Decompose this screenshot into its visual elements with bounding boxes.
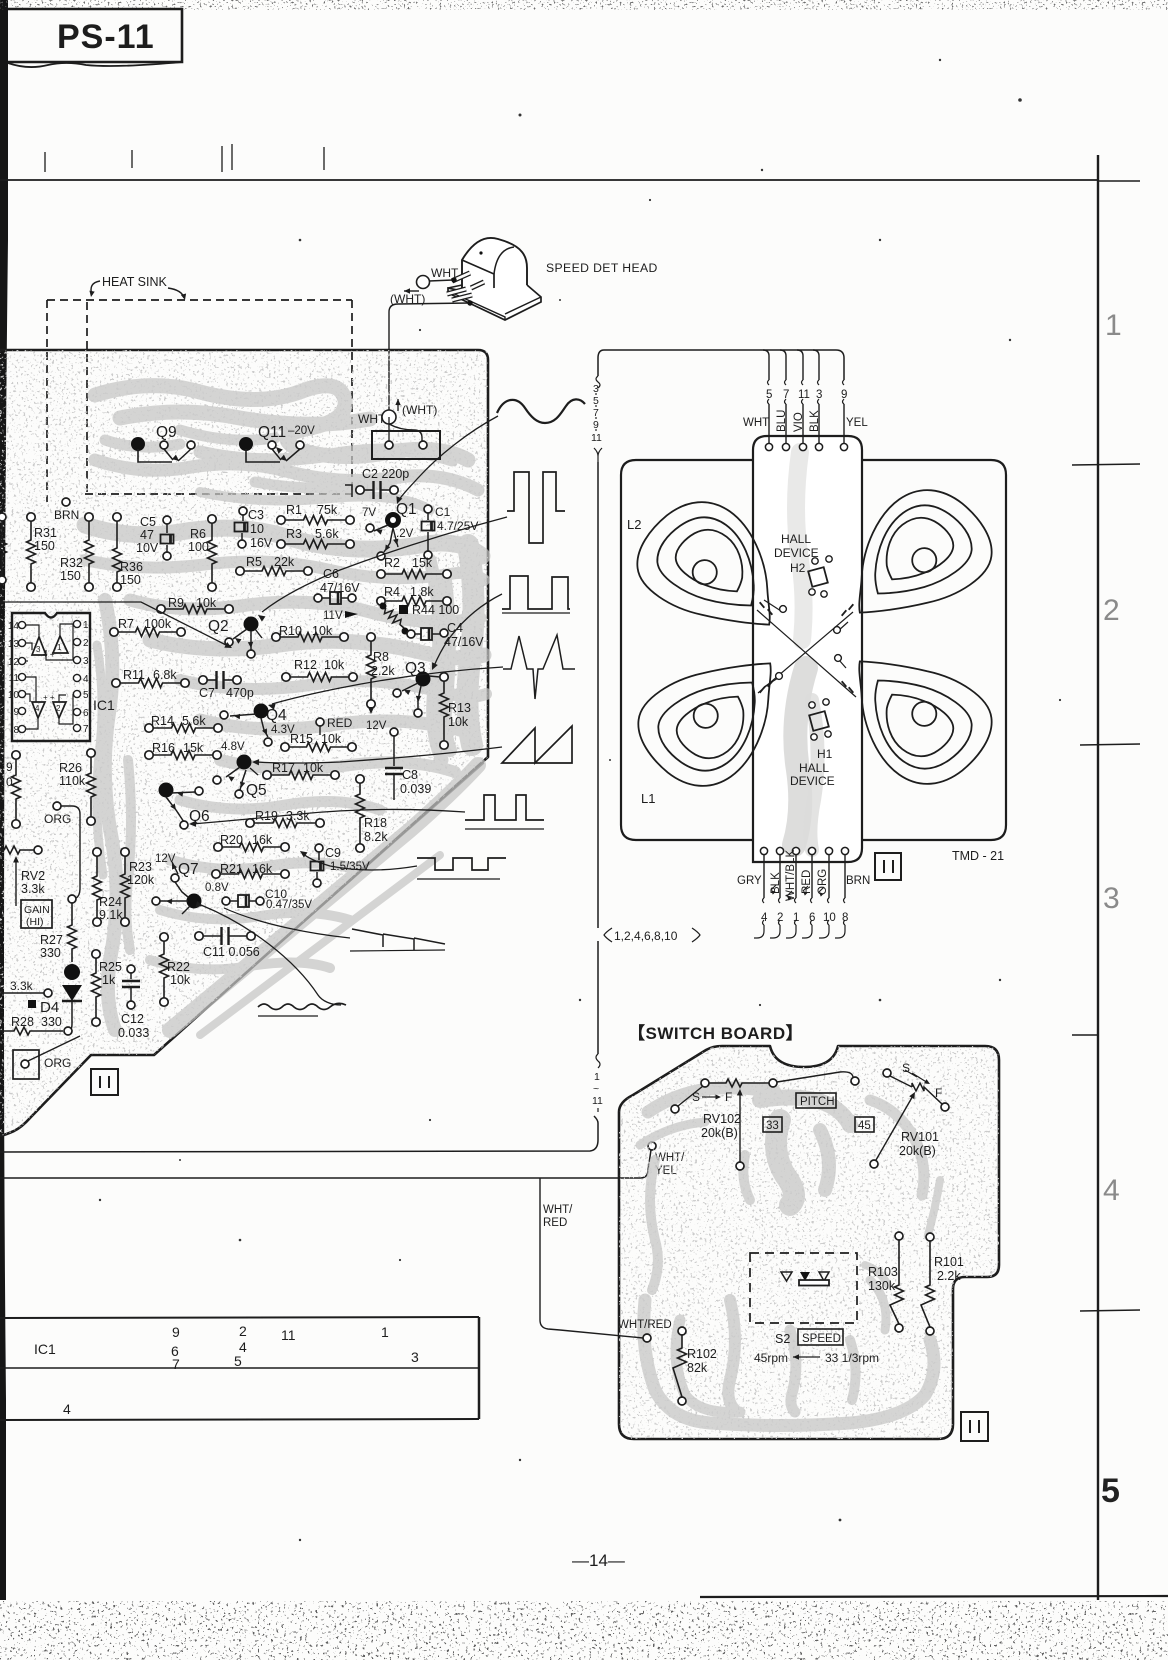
- IC1 pin 7: [73, 724, 80, 731]
- switch board gray traces: [640, 1088, 940, 1426]
- svg-text:C7: C7: [199, 686, 215, 700]
- svg-text:9: 9: [6, 760, 13, 774]
- svg-text:SPEED DET HEAD: SPEED DET HEAD: [546, 261, 658, 275]
- svg-text:D4: D4: [40, 999, 59, 1016]
- svg-text:4: 4: [83, 674, 89, 685]
- svg-text:HEAT SINK: HEAT SINK: [102, 275, 167, 289]
- svg-text:C12: C12: [121, 1012, 144, 1026]
- svg-text:470p: 470p: [226, 686, 254, 700]
- svg-text:33 1/3rpm: 33 1/3rpm: [825, 1351, 879, 1365]
- svg-text:C4: C4: [447, 621, 463, 635]
- motor top pin 5 wire WHT: [763, 350, 769, 380]
- svg-text:—14—: —14—: [572, 1551, 625, 1570]
- motor coil upper-left: [622, 481, 809, 665]
- pot RV2 3.3k: [0, 846, 34, 854]
- motor bottom pin 2: [776, 847, 783, 854]
- svg-text:Q2: Q2: [208, 618, 229, 635]
- WHT/RED wire: [540, 1178, 560, 1330]
- svg-text:22k: 22k: [274, 555, 295, 569]
- svg-text:C9: C9: [325, 846, 341, 860]
- svg-text:4: 4: [35, 704, 40, 713]
- svg-text:R4: R4: [384, 585, 400, 599]
- svg-text:4.8V: 4.8V: [221, 741, 245, 753]
- resistor R44 100 (square mark): [399, 605, 408, 614]
- bus lower label 1~11: [596, 1054, 600, 1068]
- svg-text:1,2,4,6,8,10: 1,2,4,6,8,10: [614, 929, 678, 943]
- main PCB board outline: [158, 763, 484, 1051]
- svg-text:R18: R18: [364, 816, 387, 830]
- svg-text:7V: 7V: [362, 507, 376, 519]
- IC1 pin 6: [73, 708, 80, 715]
- svg-text:10k: 10k: [170, 973, 191, 987]
- top scan speckle band: [0, 0, 1168, 10]
- right vertical rule: [1097, 155, 1099, 1600]
- svg-text:VIO: VIO: [793, 412, 805, 432]
- svg-text:1: 1: [381, 1324, 389, 1340]
- IC1 pin 3: [73, 656, 80, 663]
- pointer curve: Q6 area to small sawtooth: [224, 908, 350, 938]
- svg-text:4: 4: [1103, 1174, 1120, 1207]
- pointer curve: sawtooth to Q5: [256, 747, 502, 763]
- ORG wire upper: [53, 802, 61, 810]
- IC1 pin 9: [18, 707, 25, 714]
- svg-text:R13: R13: [448, 701, 471, 715]
- svg-text:RV101: RV101: [901, 1130, 939, 1144]
- svg-text:C2 220p: C2 220p: [362, 467, 409, 481]
- svg-text:R101: R101: [934, 1255, 964, 1269]
- pointer curve: notched to C9: [302, 853, 417, 870]
- svg-text:YEL: YEL: [846, 417, 868, 429]
- svg-text:PS-11: PS-11: [57, 18, 155, 56]
- svg-text:10: 10: [823, 912, 836, 924]
- svg-text:R2: R2: [384, 556, 400, 570]
- svg-text:+ +: + +: [43, 650, 55, 659]
- WHT/YEL wire: [0, 1150, 651, 1178]
- svg-text:R102: R102: [687, 1347, 717, 1361]
- svg-text:Q9: Q9: [156, 424, 177, 441]
- GAIN HI box: [21, 900, 52, 928]
- motor top pin 9 wire YEL: [843, 380, 845, 404]
- motor top pin 3 wire BLK: [813, 350, 819, 380]
- svg-text:WHT/BLK: WHT/BLK: [785, 850, 797, 901]
- RED wire label: [316, 718, 324, 726]
- motor bottom pin 10: [825, 847, 832, 854]
- svg-text:3.3k: 3.3k: [21, 882, 45, 896]
- svg-text:R32: R32: [60, 556, 83, 570]
- bus connection to motor lower pins: [604, 928, 612, 942]
- pointer curve: tall pulse to Q2: [262, 517, 507, 612]
- bus break bracket top: [596, 376, 600, 388]
- svg-text:R26: R26: [59, 761, 82, 775]
- svg-text:ORG: ORG: [817, 869, 829, 895]
- svg-text:9.1k: 9.1k: [99, 908, 123, 922]
- svg-text:RV102: RV102: [703, 1112, 741, 1126]
- svg-text:F: F: [725, 1090, 732, 1104]
- svg-text:110k: 110k: [59, 774, 86, 788]
- svg-text:R9: R9: [168, 596, 184, 610]
- svg-text:L2: L2: [627, 517, 641, 532]
- motor body outline: [621, 460, 753, 840]
- S2 switch dashed box: [750, 1253, 857, 1323]
- motor top pin 7 wire BLU: [780, 350, 786, 380]
- motor coil lower-left: [623, 624, 810, 808]
- PCB copper trace shading: [85, 386, 486, 1035]
- coil interconnect wires crossing: [757, 610, 856, 697]
- heat sink dashed outline: [47, 299, 352, 301]
- svg-text:RED: RED: [327, 716, 353, 730]
- svg-text:R103: R103: [868, 1265, 898, 1279]
- bottom scan speckle band: [0, 1601, 1168, 1660]
- svg-text:14: 14: [8, 621, 20, 632]
- svg-text:(WHT): (WHT): [402, 403, 437, 417]
- svg-text:HALL: HALL: [781, 532, 811, 546]
- svg-text:BLK: BLK: [809, 410, 821, 432]
- motor bottom pin 4: [760, 847, 767, 854]
- svg-text:R44 100: R44 100: [412, 603, 459, 617]
- waveform: square wave: [502, 576, 570, 609]
- motor bottom pin 6: [808, 847, 815, 854]
- IC1 op-amp 4: [32, 702, 45, 718]
- svg-text:SPEED: SPEED: [802, 1333, 841, 1345]
- svg-text:ORG: ORG: [44, 1056, 71, 1070]
- svg-text:16k: 16k: [252, 833, 273, 847]
- top rule line: [0, 179, 1098, 181]
- svg-text:8: 8: [13, 725, 19, 736]
- svg-text:20k(B): 20k(B): [899, 1144, 936, 1158]
- svg-text:1: 1: [793, 912, 799, 924]
- waveform: sawtooth ramps: [502, 726, 572, 763]
- svg-text:R12: R12: [294, 658, 317, 672]
- svg-text:8.2k: 8.2k: [364, 830, 388, 844]
- page frame: left black bar: [0, 0, 8, 1600]
- svg-text:S2: S2: [775, 1332, 790, 1346]
- head pins: [452, 273, 470, 281]
- resistor R102 82k: [678, 1327, 686, 1335]
- motor top feed line: [604, 350, 844, 380]
- svg-text:1: 1: [1105, 309, 1122, 342]
- motor bottom pin 1: [792, 847, 799, 854]
- partial resistor at left page edge: [0, 520, 7, 575]
- svg-text:R14: R14: [151, 714, 174, 728]
- svg-text:R22: R22: [167, 960, 190, 974]
- svg-text:11: 11: [281, 1327, 296, 1343]
- svg-text:GAIN: GAIN: [24, 904, 50, 916]
- 11 box main board: [91, 1069, 118, 1095]
- svg-text:0.47/35V: 0.47/35V: [266, 899, 312, 911]
- svg-text:R25: R25: [99, 960, 122, 974]
- ORG box lower: [13, 1050, 39, 1079]
- svg-text:H2: H2: [790, 561, 806, 575]
- switch board outline: [619, 1046, 999, 1439]
- svg-text:13: 13: [8, 639, 20, 650]
- pointer curve: narrow pulses to Q6: [192, 809, 465, 824]
- svg-text:7: 7: [83, 724, 89, 735]
- motor 11 box: [875, 853, 901, 880]
- svg-text:6: 6: [809, 912, 815, 924]
- bus vertical line with 3-5-7-9-11: [597, 462, 599, 928]
- waveform: spikes: [503, 635, 575, 699]
- waveform: tall pulse: [507, 472, 565, 543]
- svg-text:IC1: IC1: [93, 697, 115, 713]
- IC1 pin 1: [73, 620, 80, 627]
- svg-text:2: 2: [777, 912, 783, 924]
- svg-text:2: 2: [83, 638, 89, 649]
- svg-text:2: 2: [1103, 594, 1120, 627]
- svg-text:R1: R1: [286, 503, 302, 517]
- pointer curve: spikes to Q4: [272, 667, 503, 704]
- svg-text:1: 1: [594, 1071, 600, 1083]
- svg-text:330: 330: [40, 946, 61, 960]
- svg-text:150: 150: [120, 573, 141, 587]
- svg-text:45rpm: 45rpm: [754, 1351, 788, 1365]
- svg-text:2: 2: [56, 704, 61, 713]
- svg-text:7: 7: [172, 1356, 180, 1372]
- svg-text:3: 3: [36, 645, 41, 654]
- svg-text:–20V: –20V: [288, 425, 315, 437]
- svg-text:9: 9: [841, 389, 847, 401]
- waveform: narrow pulses: [465, 795, 544, 820]
- IC1 pin 8: [18, 725, 25, 732]
- svg-text:330: 330: [41, 1015, 62, 1029]
- svg-text:10k: 10k: [448, 715, 469, 729]
- svg-text:+ +: + +: [43, 693, 55, 702]
- IC1 pin 12: [18, 657, 25, 664]
- svg-text:Q7: Q7: [178, 861, 199, 878]
- svg-text:75k: 75k: [317, 503, 338, 517]
- motor bottom pin 8: [841, 847, 848, 854]
- svg-text:5: 5: [1101, 1472, 1120, 1510]
- svg-text:RV2: RV2: [21, 869, 45, 883]
- svg-text:RED: RED: [543, 1217, 567, 1229]
- diagonal resistor to C4: [381, 603, 405, 629]
- svg-text:3: 3: [83, 656, 89, 667]
- svg-text:3: 3: [816, 389, 822, 401]
- svg-text:2: 2: [239, 1323, 247, 1339]
- svg-text:C11 0.056: C11 0.056: [203, 945, 260, 959]
- switch board 11 box: [961, 1412, 988, 1441]
- svg-text:R27: R27: [40, 933, 63, 947]
- svg-text:R20: R20: [220, 833, 243, 847]
- svg-text:1: 1: [57, 643, 62, 652]
- stray scan specks: [519, 114, 522, 117]
- svg-text:11: 11: [591, 432, 602, 444]
- svg-text:IC1: IC1: [34, 1341, 56, 1357]
- diode D4: [64, 964, 80, 980]
- svg-text:Q4: Q4: [266, 707, 287, 724]
- svg-text:5: 5: [83, 690, 89, 701]
- IC1 op-amp 1: [53, 636, 68, 653]
- svg-text:16V: 16V: [250, 536, 273, 550]
- svg-text:3: 3: [1103, 882, 1120, 915]
- svg-text:9: 9: [13, 707, 19, 718]
- svg-text:10: 10: [250, 522, 264, 536]
- svg-text:(HI): (HI): [26, 916, 44, 928]
- svg-text:45: 45: [858, 1120, 871, 1132]
- op-amp IC1 outline: [12, 613, 90, 741]
- 45 box: [855, 1117, 874, 1132]
- registration tick marks above top rule: [44, 152, 46, 172]
- svg-text:2.2k: 2.2k: [937, 1269, 961, 1283]
- svg-text:【SWITCH BOARD】: 【SWITCH BOARD】: [628, 1023, 803, 1043]
- svg-text:H1: H1: [817, 747, 833, 761]
- svg-text:10k: 10k: [324, 658, 345, 672]
- svg-text:PITCH: PITCH: [800, 1096, 835, 1108]
- svg-text:0.8V: 0.8V: [205, 882, 229, 894]
- hall strip gray smudge: [796, 452, 804, 640]
- IC1 pin 4: [73, 674, 80, 681]
- IC1 pin 10: [18, 690, 25, 697]
- svg-text:GRY: GRY: [737, 875, 762, 887]
- PITCH box: [796, 1093, 836, 1108]
- IC1 pin 5: [73, 690, 80, 697]
- svg-text:20k(B): 20k(B): [701, 1126, 738, 1140]
- waveform: small sawtooth: [352, 929, 445, 950]
- svg-text:0.033: 0.033: [118, 1026, 149, 1040]
- waveform: sine: [497, 399, 585, 423]
- svg-text:0.039: 0.039: [400, 782, 431, 796]
- svg-text:BRN: BRN: [54, 508, 79, 522]
- IC1 pin 13: [18, 639, 25, 646]
- svg-text:5: 5: [234, 1353, 242, 1369]
- svg-text:8: 8: [842, 912, 848, 924]
- svg-text:1: 1: [83, 620, 89, 631]
- svg-text:R3: R3: [286, 527, 302, 541]
- svg-text:47: 47: [140, 528, 154, 542]
- wire from head to board: [429, 280, 453, 281]
- svg-text:11: 11: [592, 1095, 603, 1107]
- waveform: notched line: [417, 858, 506, 870]
- svg-text:7: 7: [783, 389, 789, 401]
- svg-text:12: 12: [8, 657, 20, 668]
- svg-text:9: 9: [172, 1324, 180, 1340]
- svg-text:HALL: HALL: [799, 761, 829, 775]
- svg-text:.2V: .2V: [396, 528, 414, 540]
- svg-text:TMD - 21: TMD - 21: [952, 849, 1004, 863]
- svg-text:15k: 15k: [183, 741, 204, 755]
- 33 box: [763, 1117, 782, 1132]
- svg-text:10: 10: [8, 690, 20, 701]
- svg-text:DEVICE: DEVICE: [790, 774, 835, 788]
- svg-text:3: 3: [411, 1349, 419, 1365]
- svg-text:C1: C1: [435, 505, 451, 519]
- pointer line from left edge to Q2 lead: [0, 602, 228, 646]
- svg-text:R28: R28: [11, 1015, 34, 1029]
- svg-text:BRN: BRN: [846, 875, 870, 887]
- svg-text:4: 4: [63, 1401, 71, 1417]
- pointer curve: sine to Q1: [399, 416, 498, 500]
- motor coil upper-right: [821, 469, 1008, 653]
- svg-text:R24: R24: [99, 895, 122, 909]
- svg-text:ORG: ORG: [44, 812, 71, 826]
- svg-text:L1: L1: [641, 791, 655, 806]
- IC1 op-amp 2: [53, 702, 66, 718]
- IC1 pin 11: [18, 673, 25, 680]
- svg-text:WHT: WHT: [743, 417, 769, 429]
- svg-text:RED: RED: [801, 870, 813, 894]
- svg-text:15k: 15k: [412, 556, 433, 570]
- motor top pin 11 wire VIO: [797, 350, 803, 380]
- connector block rectangle: [389, 424, 422, 442]
- svg-text:Q5: Q5: [246, 782, 267, 799]
- pointer curve: square to Q3/C4 region: [434, 594, 502, 666]
- svg-text:5.6k: 5.6k: [182, 714, 206, 728]
- svg-text:R31: R31: [34, 526, 57, 540]
- pointer curve: Q7 to wavy symbol: [201, 905, 341, 1005]
- svg-text:4: 4: [761, 912, 768, 924]
- PS-11 title box: [8, 9, 182, 62]
- svg-text:DEVICE: DEVICE: [774, 546, 819, 560]
- svg-text:5: 5: [766, 389, 772, 401]
- svg-text:BLU: BLU: [776, 410, 788, 432]
- svg-text:WHT/RED: WHT/RED: [618, 1319, 672, 1331]
- svg-text:~: ~: [593, 1083, 599, 1095]
- svg-text:C3: C3: [248, 508, 264, 522]
- IC1 pin 2: [73, 638, 80, 645]
- svg-text:Q11: Q11: [258, 424, 286, 441]
- svg-text:10V: 10V: [136, 541, 159, 555]
- svg-text:3.3k: 3.3k: [10, 979, 34, 993]
- svg-text:C8: C8: [402, 768, 418, 782]
- svg-text:C5: C5: [140, 515, 156, 529]
- IC1 pin 14: [18, 621, 25, 628]
- svg-text:33: 33: [766, 1120, 779, 1132]
- svg-text:11: 11: [9, 673, 20, 684]
- svg-text:5.6k: 5.6k: [315, 527, 339, 541]
- svg-text:11V: 11V: [323, 610, 343, 622]
- IC1 op-amp 3: [32, 637, 46, 655]
- svg-text:WHT/: WHT/: [543, 1204, 573, 1216]
- svg-text:1.8k: 1.8k: [410, 585, 434, 599]
- svg-text:82k: 82k: [687, 1361, 708, 1375]
- svg-text:150: 150: [60, 569, 81, 583]
- svg-text:130k: 130k: [868, 1279, 896, 1293]
- pot RV102: [701, 1079, 709, 1087]
- waveform: wavy line: [258, 1003, 346, 1009]
- hall device strip: [753, 436, 862, 862]
- BRN wire label: [62, 498, 70, 506]
- svg-text:R5: R5: [246, 555, 262, 569]
- svg-text:R36: R36: [120, 560, 143, 574]
- IC1 pin table bottom left: [0, 1317, 479, 1318]
- svg-text:100k: 100k: [144, 617, 172, 631]
- svg-text:R23: R23: [129, 860, 152, 874]
- svg-text:6: 6: [83, 708, 89, 719]
- motor coil lower-right: [821, 622, 1008, 806]
- svg-text:1k: 1k: [102, 973, 116, 987]
- svg-text:11: 11: [798, 389, 810, 401]
- svg-text:R6: R6: [190, 527, 206, 541]
- svg-text:R7: R7: [118, 617, 134, 631]
- svg-text:12V: 12V: [366, 720, 387, 732]
